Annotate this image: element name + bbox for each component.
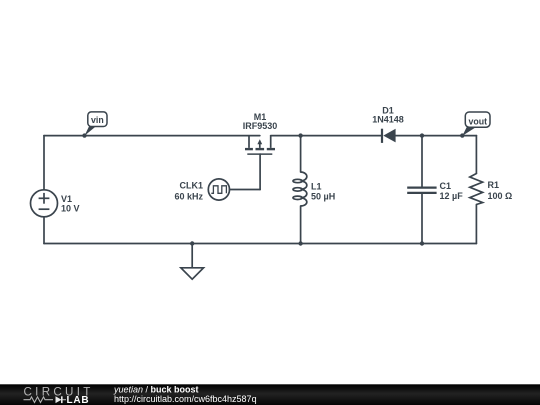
svg-text:http://circuitlab.com/cw6fbc4h: http://circuitlab.com/cw6fbc4hz587q: [114, 394, 257, 404]
wire top rail right (D1 anode to vout corner): [396, 135, 477, 137]
node vout flag: [462, 112, 490, 136]
svg-text:60 kHz: 60 kHz: [174, 192, 203, 202]
svg-text:1N4148: 1N4148: [372, 115, 404, 125]
wire C1 branch upper: [421, 136, 423, 188]
node junction C1 top: [420, 133, 424, 137]
transistor M1 (PMOS): [245, 136, 275, 155]
node junction C1 bottom: [420, 241, 424, 245]
svg-text:V1: V1: [61, 194, 72, 204]
wire M1 gate lead vertical: [259, 154, 261, 189]
svg-text:R1: R1: [488, 180, 500, 190]
node vout dot: [460, 133, 464, 137]
wire L1 branch upper: [300, 136, 302, 172]
clock source CLK1: [208, 179, 229, 200]
wire left vertical upper (vin rail to V1 top): [43, 136, 45, 190]
wire M1 gate lead horizontal (to CLK1): [230, 189, 261, 191]
diode D1: [382, 129, 396, 143]
svg-text:vin: vin: [91, 115, 104, 125]
footer logo diode: [56, 396, 62, 403]
svg-text:C1: C1: [440, 181, 452, 191]
svg-text:10 V: 10 V: [61, 204, 80, 214]
wire top rail left (vin to M1 source/body): [44, 135, 260, 137]
inductor L1: [293, 172, 307, 206]
voltage source V1: [31, 190, 58, 217]
svg-text:100 Ω: 100 Ω: [488, 191, 513, 201]
wire ground stub: [191, 244, 193, 268]
svg-text:L1: L1: [311, 181, 322, 191]
svg-text:LAB: LAB: [67, 395, 90, 405]
node junction L1 bottom: [298, 241, 302, 245]
svg-text:IRF9530: IRF9530: [243, 121, 278, 131]
wire right vertical upper (vout corner to R1): [475, 136, 477, 173]
wire right vertical lower (R1 to bottom rail): [475, 205, 477, 244]
footer bar: [0, 384, 540, 405]
footer logo resistor squiggle: [24, 397, 54, 403]
svg-text:CLK1: CLK1: [179, 181, 203, 191]
svg-text:12 µF: 12 µF: [440, 191, 464, 201]
wire C1 branch lower: [421, 193, 423, 244]
wire top rail middle (M1 drain to D1 cathode): [271, 135, 382, 137]
svg-text:vout: vout: [469, 116, 488, 126]
resistor R1: [470, 173, 483, 205]
wire left vertical lower (V1 bottom to ground rail): [43, 217, 45, 244]
svg-text:50 µH: 50 µH: [311, 192, 335, 202]
node junction L1 top: [298, 133, 302, 137]
ground: [181, 268, 204, 279]
node vin dot: [82, 133, 86, 137]
wire L1 branch lower: [300, 206, 302, 244]
node vin flag: [85, 112, 108, 136]
node junction ground: [190, 241, 194, 245]
capacitor C1: [407, 188, 436, 193]
wire bottom rail: [44, 243, 476, 245]
